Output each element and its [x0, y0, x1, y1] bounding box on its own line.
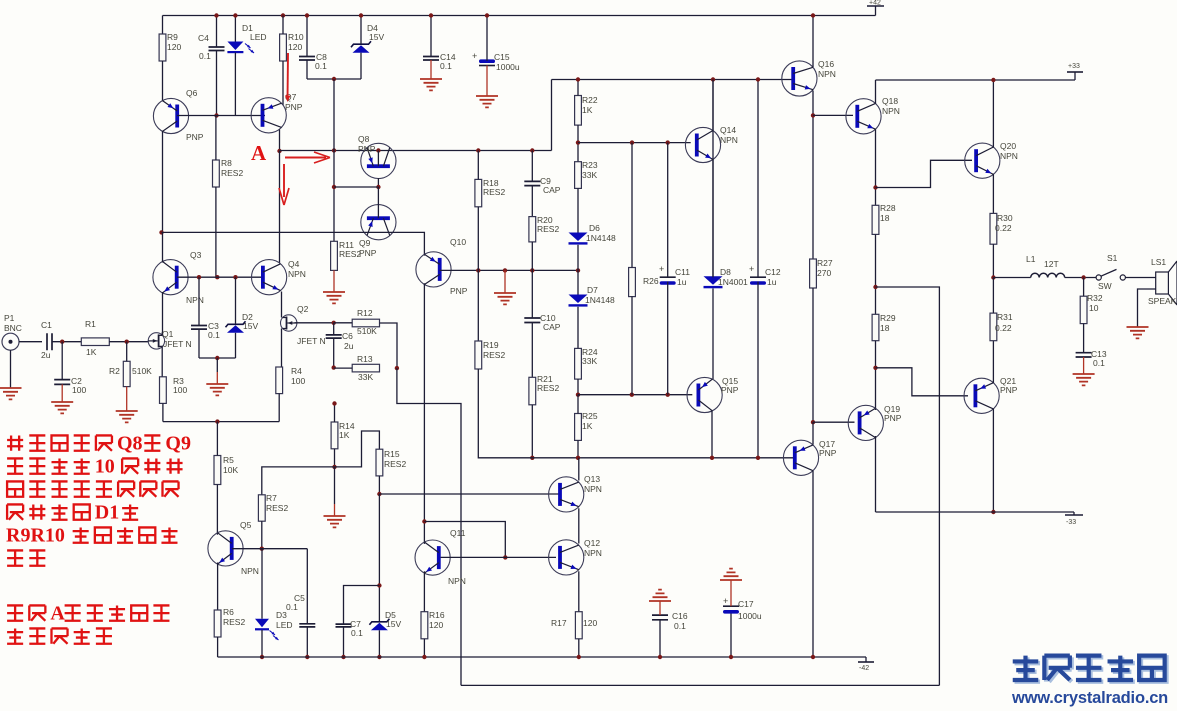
svg-text:Q4: Q4: [288, 259, 300, 269]
wire R4 bottom: [278, 394, 280, 422]
wire Q17 collector down: [812, 471, 814, 657]
inverted ground above C16: [659, 601, 661, 615]
wire R32 to C13: [1083, 324, 1085, 353]
svg-text:Q10: Q10: [450, 237, 466, 247]
svg-text:1K: 1K: [86, 347, 97, 357]
transistor Q12 NPN: [549, 540, 584, 575]
red arrow near Q7: [287, 53, 290, 100]
ground below speaker: [1127, 327, 1149, 338]
svg-text:100: 100: [72, 385, 86, 395]
svg-text:PNP: PNP: [358, 144, 376, 154]
resistor R26: [629, 268, 636, 297]
svg-text:BNC: BNC: [4, 323, 22, 333]
wire R5 to Q5: [216, 485, 218, 535]
wire R31 top stub: [992, 278, 994, 314]
svg-text:R23: R23: [582, 160, 598, 170]
svg-text:D8: D8: [720, 267, 731, 277]
ground below C2: [51, 402, 73, 413]
wire Q4 emitter down to Q2: [281, 292, 283, 317]
svg-text:R10: R10: [288, 32, 304, 42]
svg-text:NPN: NPN: [584, 548, 602, 558]
node A: [277, 149, 281, 153]
svg-text:RES2: RES2: [339, 249, 361, 259]
resistor R3: [160, 377, 167, 404]
ground below C14: [430, 60, 432, 79]
svg-text:NPN: NPN: [882, 106, 900, 116]
resistor R29: [872, 314, 879, 340]
svg-text:Q9: Q9: [359, 238, 371, 248]
svg-text:1N4148: 1N4148: [585, 295, 615, 305]
wire R3 bottom: [162, 403, 164, 421]
svg-text:RES2: RES2: [537, 224, 559, 234]
svg-text:R7: R7: [266, 493, 277, 503]
svg-text:R15: R15: [384, 449, 400, 459]
wire Q2 gate to C6 node: [295, 322, 334, 324]
wire C4 stubs: [216, 16, 218, 48]
wire -33 rail: [876, 511, 1075, 513]
svg-text:120: 120: [583, 618, 597, 628]
resistor R20: [529, 217, 536, 242]
svg-text:R26: R26: [643, 276, 659, 286]
svg-text:SPEAKER: SPEAKER: [1148, 296, 1177, 306]
wire R22-R23 link: [577, 125, 579, 162]
transistor Q9 PNP: [361, 205, 396, 240]
svg-text:510K: 510K: [357, 326, 377, 336]
svg-text:+42: +42: [869, 0, 881, 7]
svg-text:Q1: Q1: [162, 329, 174, 339]
wire C3-D2 bottom link: [199, 357, 236, 359]
capacitor C4: [209, 47, 225, 51]
svg-text:33K: 33K: [358, 372, 373, 382]
capacitor C16: [652, 615, 668, 620]
svg-text:1000u: 1000u: [738, 611, 762, 621]
wire Q15 collector down: [711, 411, 713, 458]
transistor Q20 NPN: [965, 143, 1000, 178]
transistor Q5 NPN: [208, 531, 243, 566]
svg-text:S1: S1: [1107, 253, 1118, 263]
svg-text:R19: R19: [483, 340, 499, 350]
wire Q9 top stub: [377, 187, 379, 218]
ground below P1: [0, 388, 22, 399]
wire R7 to R14/R15 link: [262, 431, 380, 495]
resistor R24: [575, 348, 582, 379]
svg-text:Q8: Q8: [358, 134, 370, 144]
power -33: [1073, 512, 1075, 515]
svg-text:12T: 12T: [1044, 259, 1059, 269]
wire Q8 base stub: [377, 151, 379, 167]
svg-text:P1: P1: [4, 313, 15, 323]
resistor R30: [990, 213, 997, 244]
wire D2 stubs: [235, 277, 237, 324]
ground stub below Q10 base line: [504, 270, 506, 293]
svg-text:PNP: PNP: [721, 385, 739, 395]
ground below C15: [486, 66, 488, 97]
wire R27 line to Q17 emitter: [812, 422, 814, 444]
wire R8 top stub: [215, 116, 217, 161]
svg-text:Q12: Q12: [584, 538, 600, 548]
wire R2 top stub: [126, 342, 128, 362]
connector P1 BNC: [2, 333, 19, 350]
ground below C13: [1073, 374, 1095, 385]
wire R18 stubs: [477, 151, 479, 180]
diode D3 LED: [255, 619, 269, 628]
wire C8-D4 bottom link: [307, 78, 361, 80]
svg-text:R1: R1: [85, 319, 96, 329]
wire Q3-Q4 base line: [177, 276, 263, 278]
wire C10 bottom stub: [531, 323, 533, 378]
svg-text:1K: 1K: [582, 105, 593, 115]
transistor Q10 PNP: [416, 252, 451, 287]
svg-text:NPN: NPN: [818, 69, 836, 79]
wire C12 stubs: [757, 80, 759, 278]
svg-text:1N4148: 1N4148: [586, 233, 616, 243]
svg-text:R22: R22: [582, 95, 598, 105]
svg-text:+: +: [472, 51, 477, 61]
ground below R2: [116, 411, 138, 422]
transistor Q15 PNP: [687, 377, 722, 412]
transistor Q13 NPN: [549, 477, 584, 512]
resistor R6: [214, 610, 221, 637]
transistor Q16 NPN: [782, 61, 817, 96]
wire C6 stubs: [333, 323, 335, 335]
wire R14 top stub: [334, 404, 336, 423]
wire Q3 collector up: [162, 232, 164, 262]
svg-text:R16: R16: [429, 610, 445, 620]
wire C8/D4 node down through A line to R11: [333, 79, 335, 241]
wire Q10 base line: [440, 269, 578, 271]
svg-text:1u: 1u: [767, 277, 777, 287]
svg-text:1000u: 1000u: [496, 62, 520, 72]
wire Q18 emitter to Q20 base: [876, 160, 973, 187]
resistor R10: [280, 34, 287, 61]
svg-text:10: 10: [1089, 303, 1099, 313]
svg-text:18: 18: [880, 213, 890, 223]
wire D4 stubs: [360, 16, 362, 45]
svg-text:R6: R6: [223, 607, 234, 617]
svg-text:0.1: 0.1: [351, 628, 363, 638]
diode D5 zener up: [369, 619, 389, 625]
svg-text:A: A: [251, 141, 267, 165]
wire R13 right corner to long vertical: [397, 368, 461, 685]
svg-text:PNP: PNP: [819, 448, 837, 458]
svg-text:NPN: NPN: [288, 269, 306, 279]
resistor R23: [575, 162, 582, 189]
resistor R21: [529, 377, 536, 405]
wire R19 bottom corner: [478, 369, 795, 458]
power +33: [1074, 72, 1076, 80]
wire Q1 source down: [161, 346, 163, 376]
svg-text:RES2: RES2: [266, 503, 288, 513]
svg-text:R31: R31: [997, 312, 1013, 322]
resistor R14: [331, 422, 338, 449]
svg-text:L1: L1: [1026, 254, 1036, 264]
wire R22 top stub: [577, 80, 579, 96]
svg-text:R9R10: R9R10: [6, 525, 65, 547]
wire S1 to speaker: [1125, 277, 1155, 279]
resistor R22: [575, 96, 582, 126]
wire P1 ground stub: [10, 350, 12, 388]
svg-text:RES2: RES2: [384, 459, 406, 469]
wire R32 top stub: [1083, 278, 1085, 297]
diode D8 1N4001: [704, 276, 723, 285]
wire Q11 emitter down to R16: [423, 571, 425, 611]
power -42: [865, 657, 867, 662]
svg-text:CAP: CAP: [543, 185, 561, 195]
capacitor C3: [191, 326, 207, 330]
wire Q8 emitter to junction: [377, 178, 379, 187]
svg-text:NPN: NPN: [720, 135, 738, 145]
svg-text:2u: 2u: [344, 341, 354, 351]
red annotation text: [7, 435, 23, 450]
wire Q5 emitter down: [217, 563, 219, 611]
wire D5 bottom stub: [378, 630, 380, 657]
capacitor C7: [336, 624, 352, 627]
ground below R11: [333, 270, 335, 292]
wire D7 to R24: [577, 307, 579, 349]
transistor Q21 PNP: [964, 378, 999, 413]
capacitor C8: [299, 57, 315, 61]
red arrow right from node A: [285, 157, 326, 159]
speaker LS1: [1156, 272, 1169, 294]
wire Q3 emitter down to Q1: [162, 292, 164, 333]
resistor R32: [1080, 296, 1087, 323]
wire R8 bottom to base line: [215, 187, 217, 277]
svg-text:RES2: RES2: [537, 383, 559, 393]
wire Q2 top lead: [281, 316, 283, 318]
resistor R25: [575, 414, 582, 441]
svg-text:Q14: Q14: [720, 125, 736, 135]
wire P1 to C1: [19, 341, 42, 343]
svg-text:R2: R2: [109, 366, 120, 376]
wire speaker ground stub: [1138, 289, 1156, 327]
svg-text:+33: +33: [1068, 63, 1080, 70]
svg-text:15V: 15V: [243, 321, 258, 331]
svg-text:0.1: 0.1: [315, 61, 327, 71]
svg-text:PNP: PNP: [884, 413, 902, 423]
wire R23 to D6: [577, 188, 579, 232]
svg-text:18: 18: [880, 323, 890, 333]
wire Q5 base line: [232, 548, 307, 550]
resistor R31: [990, 313, 997, 341]
wire R30 bottom stub: [992, 244, 994, 277]
wire Q11-Q12 base line: [441, 556, 556, 558]
wire R6 bottom: [217, 637, 219, 657]
capacitor C14: [423, 57, 439, 61]
svg-text:Q9: Q9: [165, 433, 191, 455]
capacitor C6: [326, 335, 342, 338]
svg-text:D7: D7: [587, 285, 598, 295]
svg-text:0.1: 0.1: [1093, 358, 1105, 368]
svg-text:+: +: [749, 264, 754, 274]
svg-text:R28: R28: [880, 203, 896, 213]
wire mirror rail: [162, 232, 425, 255]
transistor Q4 NPN: [252, 260, 287, 295]
svg-text:R5: R5: [223, 455, 234, 465]
svg-text:R4: R4: [291, 366, 302, 376]
svg-text:LED: LED: [250, 32, 267, 42]
svg-text:510K: 510K: [132, 366, 152, 376]
svg-text:-42: -42: [859, 665, 869, 672]
resistor R2: [123, 361, 130, 386]
svg-text:RES2: RES2: [221, 168, 243, 178]
capacitor C10: [524, 318, 540, 323]
inductor L1: [1031, 273, 1065, 277]
resistor R5: [214, 456, 221, 485]
resistor R13: [352, 364, 379, 372]
wire C1 to junction: [52, 341, 81, 343]
resistor R28: [872, 205, 879, 234]
wire C16 bottom stub: [659, 620, 661, 657]
svg-text:R17: R17: [551, 618, 567, 628]
svg-text:NPN: NPN: [241, 566, 259, 576]
svg-text:+: +: [723, 596, 728, 606]
svg-text:120: 120: [167, 42, 181, 52]
svg-text:120: 120: [429, 620, 443, 630]
resistor R19: [475, 341, 482, 369]
wire R9 to Q6: [162, 61, 164, 101]
svg-text:LED: LED: [276, 620, 293, 630]
wire top +42 rail: [163, 15, 876, 17]
svg-text:Q11: Q11: [450, 528, 466, 538]
wire output node to L1: [993, 277, 1030, 279]
wire Q19 base link: [813, 421, 855, 423]
wire Q14 collector up: [712, 80, 714, 131]
wire Q19 collector down: [875, 436, 877, 512]
svg-text:Q5: Q5: [240, 520, 252, 530]
svg-text:Q3: Q3: [190, 250, 202, 260]
wire R5 top stub: [216, 422, 218, 456]
svg-text:0.1: 0.1: [286, 602, 298, 612]
wire Q14 base line: [578, 142, 691, 144]
diode D4 zener: [351, 41, 371, 47]
svg-text:33K: 33K: [582, 356, 597, 366]
transistor Q17 PNP: [783, 440, 818, 475]
svg-text:120: 120: [288, 42, 302, 52]
wire R24 bottom stub: [577, 379, 579, 395]
svg-text:10: 10: [95, 456, 115, 478]
wire A line to right: [280, 150, 552, 152]
wire Q16-Q18 base link: [813, 114, 853, 116]
svg-text:C15: C15: [494, 52, 510, 62]
svg-text:C12: C12: [765, 267, 781, 277]
wire Q7 collector to node A: [279, 130, 281, 152]
svg-text:15V: 15V: [369, 32, 384, 42]
wire Q13 collector up: [578, 458, 580, 481]
svg-text:0.1: 0.1: [199, 51, 211, 61]
svg-text:1N4001: 1N4001: [718, 277, 748, 287]
wire Q16 emitter down: [812, 91, 814, 260]
wire R16 bottom: [423, 639, 425, 657]
svg-text:JFET N: JFET N: [163, 339, 192, 349]
wire C5 bottom stub: [306, 627, 308, 657]
resistor R4: [276, 367, 283, 394]
wire D3 stubs: [261, 549, 263, 619]
svg-text:PNP: PNP: [1000, 385, 1018, 395]
wire Q11 collector corner: [424, 522, 505, 558]
svg-text:PNP: PNP: [285, 102, 303, 112]
wire mid rail corner to A-line: [551, 80, 553, 151]
wire Q8-R11 link: [334, 186, 378, 188]
resistor R16: [421, 612, 428, 639]
wire +33 rail right segment: [876, 79, 1076, 81]
wire Q16 collector up: [812, 16, 814, 68]
capacitor C1: [47, 333, 52, 350]
power +42: [875, 6, 877, 16]
svg-text:www.crystalradio.cn: www.crystalradio.cn: [1011, 689, 1168, 707]
resistor R1: [81, 338, 109, 346]
capacitor C12: [750, 276, 766, 278]
wire R20 bottom stub: [531, 242, 533, 318]
svg-text:C1: C1: [41, 320, 52, 330]
wire feedback right vertical: [876, 287, 940, 685]
diode D7 1N4148: [569, 295, 588, 304]
wire R1 to junction: [109, 341, 148, 343]
svg-text:R32: R32: [1087, 293, 1103, 303]
ground below C3/D2: [216, 358, 218, 372]
capacitor C15: [479, 59, 495, 63]
svg-text:C11: C11: [675, 267, 690, 277]
wire C7 bottom stub: [343, 627, 345, 657]
wire Q6-Q7 base link: [177, 115, 265, 117]
wire Q10 emitter down to Q11: [423, 283, 425, 544]
svg-text:RES2: RES2: [483, 187, 505, 197]
wire R17 bottom: [578, 639, 580, 657]
wire C11 stubs: [667, 143, 669, 278]
transistor Q14 NPN: [685, 127, 720, 162]
svg-text:R29: R29: [880, 313, 896, 323]
svg-text:10K: 10K: [223, 465, 238, 475]
wire Q18 collector up: [875, 80, 877, 104]
svg-text:0.1: 0.1: [674, 621, 686, 631]
svg-text:Q2: Q2: [297, 304, 309, 314]
resistor R18: [475, 179, 482, 206]
wire mid +33 rail left segment: [552, 79, 796, 81]
transistor Q19 PNP: [848, 405, 883, 440]
svg-text:C17: C17: [738, 599, 754, 609]
svg-text:PNP: PNP: [450, 286, 468, 296]
wire D1 stubs: [234, 16, 236, 42]
svg-text:100: 100: [291, 376, 305, 386]
wire Q2 bottom lead: [281, 329, 283, 368]
wire D6-D7 link: [577, 245, 579, 295]
wire C7 top corner: [344, 586, 380, 625]
red arrow down from node A: [283, 164, 285, 197]
resistor R12: [352, 319, 379, 327]
svg-text:R9: R9: [167, 32, 178, 42]
svg-text:Q20: Q20: [1000, 141, 1016, 151]
svg-text:R27: R27: [817, 258, 833, 268]
resistor R11: [331, 241, 338, 270]
wire R12 left stub: [334, 322, 353, 324]
svg-text:+: +: [659, 264, 664, 274]
ground below R14: [334, 467, 336, 504]
resistor R8: [213, 160, 220, 187]
wire R29 bottom stub: [875, 341, 877, 410]
resistor R7: [258, 495, 265, 521]
watermark logo: [1015, 657, 1041, 681]
wire C14 top stub: [430, 16, 432, 57]
svg-text:0.22: 0.22: [995, 223, 1012, 233]
svg-text:PNP: PNP: [359, 248, 377, 258]
svg-text:1K: 1K: [582, 421, 593, 431]
wire R21 bottom stub: [531, 405, 533, 458]
resistor R15: [376, 449, 383, 476]
svg-text:2u: 2u: [41, 350, 51, 360]
transistor Q18 NPN: [846, 99, 881, 134]
wire R25 stubs: [577, 395, 579, 414]
svg-text:C4: C4: [198, 33, 209, 43]
wire R13 left stub: [334, 367, 353, 369]
